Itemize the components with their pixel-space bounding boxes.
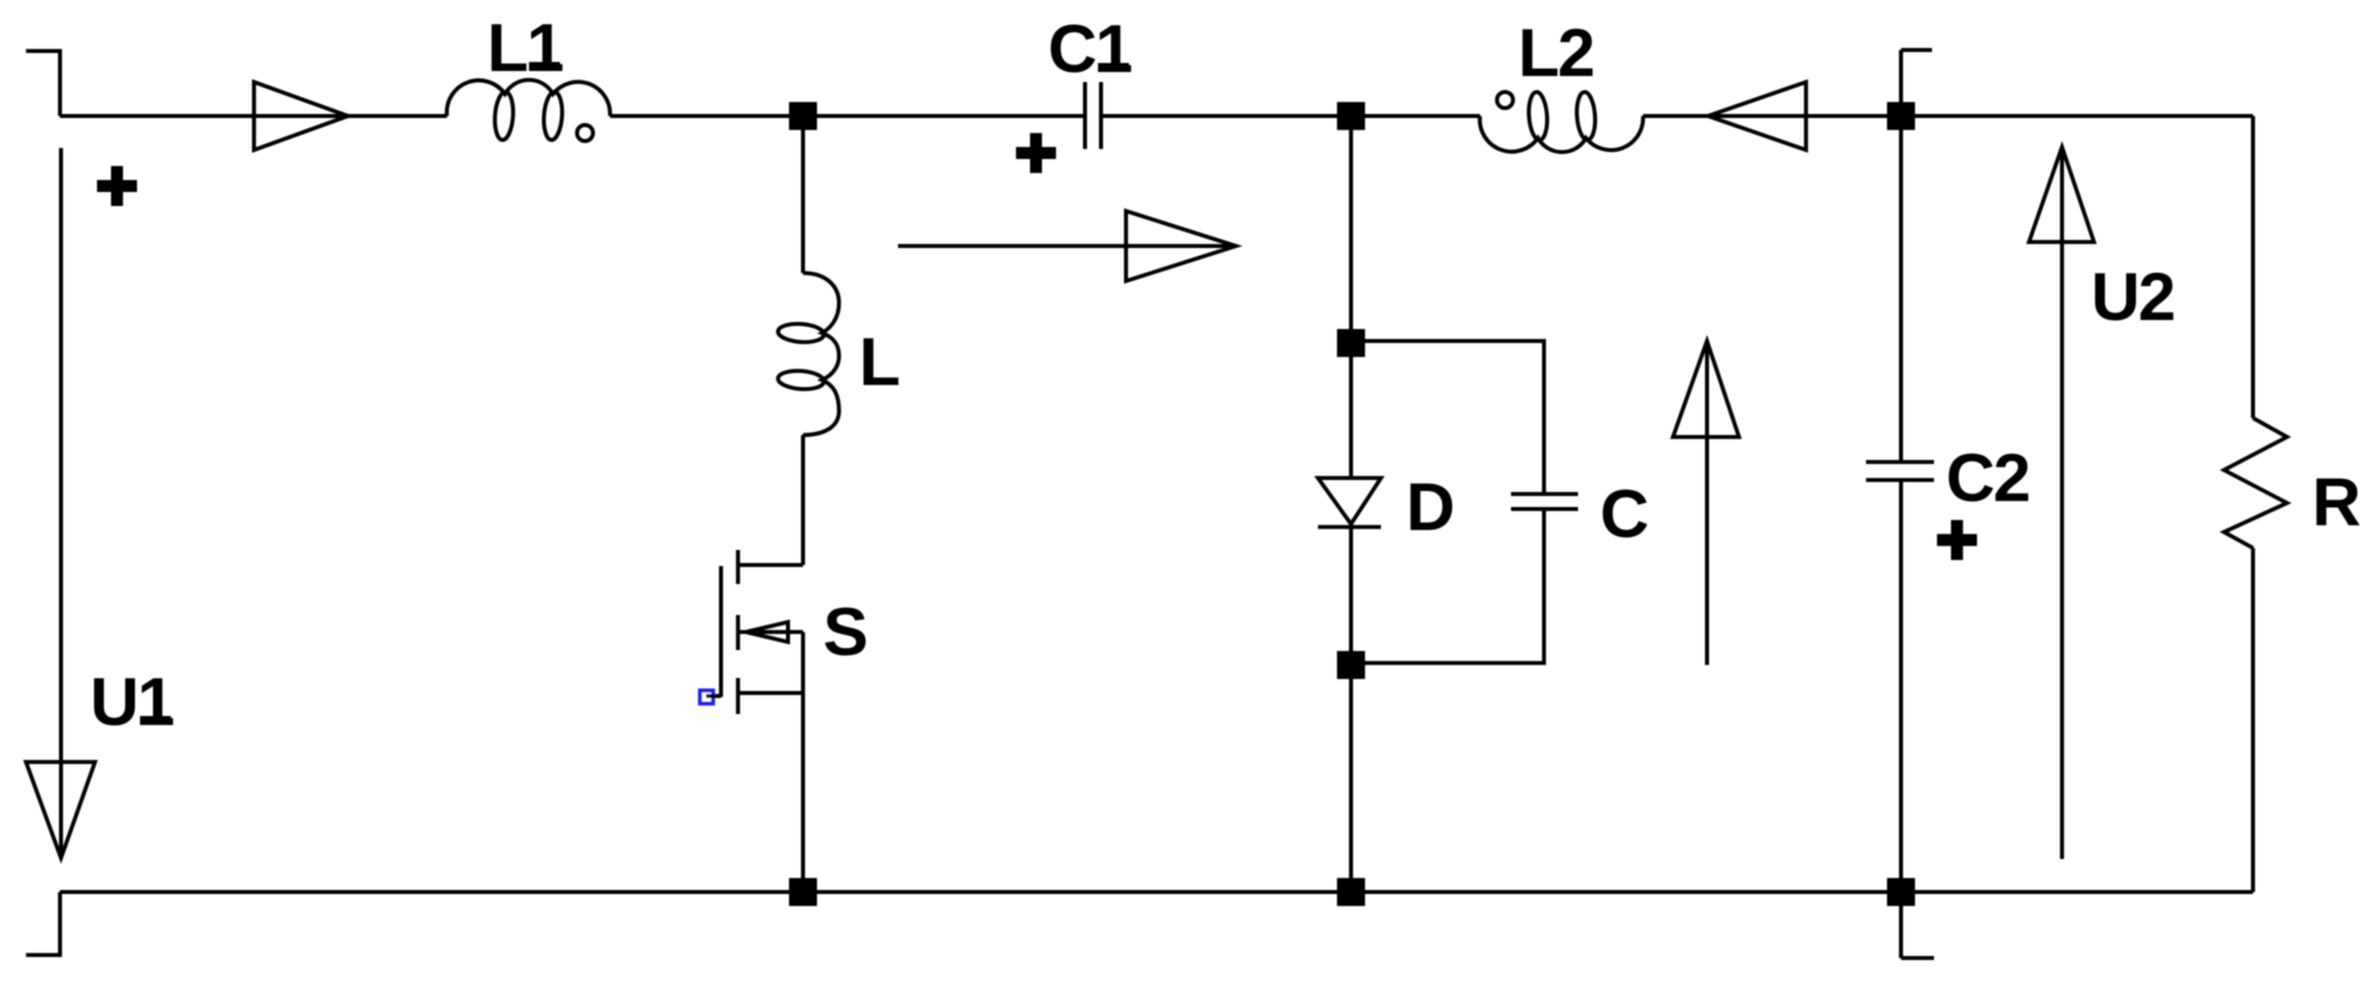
svg-text:L: L bbox=[859, 324, 899, 400]
svg-text:L2: L2 bbox=[1518, 15, 1594, 91]
svg-text:D: D bbox=[1406, 469, 1453, 545]
svg-text:C: C bbox=[1600, 476, 1648, 552]
svg-text:S: S bbox=[823, 594, 866, 670]
svg-text:C1: C1 bbox=[1048, 11, 1131, 87]
svg-text:C2: C2 bbox=[1946, 440, 2029, 516]
svg-text:L1: L1 bbox=[487, 10, 563, 86]
svg-text:R: R bbox=[2312, 464, 2360, 540]
svg-text:U1: U1 bbox=[90, 664, 173, 740]
svg-text:U2: U2 bbox=[2091, 259, 2174, 335]
